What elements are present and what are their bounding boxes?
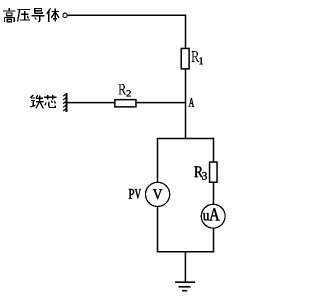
wire right vertical between R1 and node A bbox=[185, 70, 187, 103]
resistor R3 bbox=[210, 162, 218, 182]
ground bbox=[175, 282, 195, 291]
wire from iron core to R2 bbox=[67, 102, 114, 104]
node A wire down bbox=[185, 102, 187, 139]
label V inside voltmeter bbox=[153, 189, 162, 199]
wire top horizontal bbox=[68, 14, 186, 16]
label 铁芯 (iron core) bbox=[30, 95, 56, 109]
wire from R2 to node A bbox=[137, 102, 186, 104]
label A bbox=[189, 98, 195, 107]
iron-core electrode symbol (hatched bar) bbox=[63, 93, 67, 112]
label R1 bbox=[192, 51, 203, 64]
resistor R1 bbox=[181, 48, 189, 68]
voltmeter PV circle bbox=[146, 182, 170, 206]
wire ground stem bbox=[184, 252, 186, 283]
wire left branch lower bbox=[157, 206, 159, 252]
terminal circle (high-voltage lead-in) bbox=[63, 13, 67, 17]
resistor R2 bbox=[115, 100, 136, 107]
microammeter uA circle bbox=[201, 204, 225, 228]
wire bottom edge of measuring box bbox=[157, 251, 214, 253]
wire right vertical upper bbox=[185, 15, 187, 49]
wire right branch lower bbox=[213, 228, 215, 253]
label PV bbox=[129, 189, 141, 199]
label R3 bbox=[194, 166, 207, 179]
wire left branch upper bbox=[157, 138, 159, 183]
label 高压导体 (high-voltage conductor) bbox=[3, 8, 59, 22]
label uA inside microammeter bbox=[203, 208, 220, 220]
wire between R3 and microammeter bbox=[213, 183, 215, 205]
label R2 bbox=[118, 84, 130, 96]
wire top edge of measuring box bbox=[157, 138, 214, 140]
wire right branch upper bbox=[213, 138, 215, 162]
